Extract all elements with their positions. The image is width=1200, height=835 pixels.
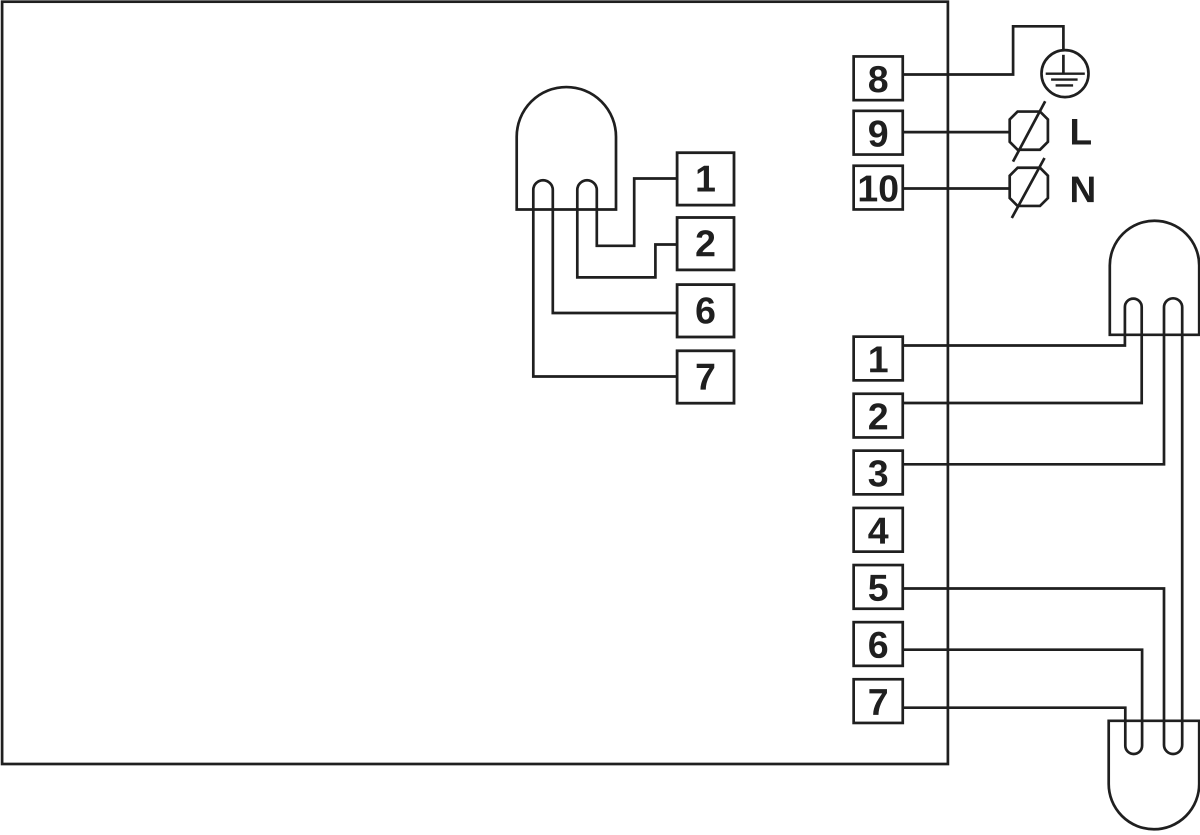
terminal box 3 (right column): [854, 451, 903, 495]
label 7: [869, 689, 887, 715]
terminal N slash: [1012, 158, 1045, 218]
wire terminal 10 to N terminal: [904, 187, 1010, 190]
terminal box 1 (right column): [854, 337, 903, 381]
label N: [1072, 177, 1094, 202]
sensor S1 body (internal probe, dome): [517, 87, 616, 209]
terminal box 7 (right column): [854, 679, 903, 723]
label 1: [870, 347, 887, 373]
terminal N (octagon): [1010, 168, 1048, 206]
wire terminal 8 to protective earth: [904, 26, 1063, 74]
label 9: [869, 120, 887, 147]
terminal L slash: [1013, 101, 1045, 161]
sensor S3 body (bottom probe, inverted dome): [1109, 721, 1200, 829]
terminal box 2 (left cluster): [677, 218, 734, 270]
terminal box 2 (right column): [854, 394, 903, 438]
sensor S1 pin 1 with wires to terminals 7 and 6: [533, 180, 678, 376]
sensor S2 pin 1 with wires to terminals 1 and 2: [904, 299, 1142, 403]
label 10: [860, 175, 898, 202]
label 2: [869, 403, 887, 429]
terminal box 7 (left cluster): [677, 351, 734, 403]
label 1: [697, 166, 714, 192]
earth stem: [1062, 55, 1065, 74]
terminal box 6 (right column): [854, 622, 903, 666]
label 5: [869, 575, 888, 601]
terminal L (octagon): [1010, 112, 1048, 150]
label 2: [696, 230, 714, 256]
sensor S3 left pin with wires to terminals 6 and 7: [904, 650, 1142, 754]
sensor S1 pin 2 with wires to terminals 1 and 2: [577, 179, 678, 278]
terminal box 8: [854, 56, 903, 100]
earth bar middle: [1051, 78, 1078, 80]
protective earth symbol (circle): [1042, 50, 1089, 97]
label 6: [696, 297, 714, 324]
terminal box 6 (left cluster): [677, 285, 734, 337]
terminal box 1 (left cluster): [677, 153, 734, 205]
sensor S2 body (external probe, dome): [1110, 221, 1199, 335]
label 6: [869, 632, 887, 659]
label 3: [869, 460, 888, 487]
terminal box 9: [854, 111, 903, 155]
earth bar short: [1056, 84, 1074, 86]
label 7: [697, 364, 715, 390]
terminal box 4 (right column): [854, 508, 903, 552]
sensor S2 pin 2 / sensor S3 right pin, wires to terminals 3 and 5: [904, 298, 1182, 754]
terminal box 5 (right column): [854, 565, 903, 609]
terminal box 10: [854, 166, 903, 210]
device outline (controller enclosure): [2, 2, 948, 764]
earth bar long: [1046, 72, 1085, 74]
label 8: [869, 66, 888, 93]
wire terminal 9 to L terminal: [904, 131, 1010, 134]
label 4: [868, 518, 888, 544]
label L: [1072, 119, 1091, 144]
